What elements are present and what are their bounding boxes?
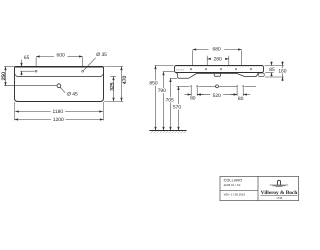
svg-text:1748: 1748 [276, 196, 283, 200]
rim fixing circles [190, 68, 192, 70]
basin deck inner edge line (plan) [15, 67, 103, 69]
svg-text:600: 600 [57, 53, 65, 59]
fixing hole extension right pair [236, 87, 238, 96]
dim 470 extension top [104, 66, 123, 68]
svg-text:325: 325 [110, 82, 116, 91]
drain leader dot [60, 87, 61, 88]
drain hole (elevation) [216, 85, 219, 88]
title block vertical divider [257, 176, 259, 200]
svg-text:COLLARO: COLLARO [224, 178, 243, 182]
dim 705 extension [170, 77, 177, 79]
svg-text:160: 160 [278, 68, 286, 74]
drain centre extension line [4, 85, 57, 87]
svg-text:80: 80 [190, 96, 196, 102]
dim 680 line right [224, 49, 242, 51]
gap 850 [149, 80, 158, 85]
svg-text:680: 680 [213, 47, 221, 53]
bowl underside line [197, 73, 238, 75]
dim 790 extension [163, 71, 174, 73]
svg-text:V00 / 17.06.2019: V00 / 17.06.2019 [224, 192, 246, 196]
dim 280 extension left [206, 56, 208, 65]
leader diameter 35 [84, 58, 96, 70]
svg-text:470: 470 [122, 76, 128, 85]
dim 1200 line left [15, 119, 52, 121]
title block horizontal divider [220, 190, 258, 192]
svg-text:280: 280 [214, 56, 222, 62]
dim 85 extension mid [265, 72, 273, 74]
dim 80 right stubs [230, 94, 237, 96]
svg-text:850: 850 [149, 81, 157, 87]
svg-text:80: 80 [238, 96, 244, 102]
bowl underside right pocket [237, 73, 258, 76]
svg-text:790: 790 [158, 88, 166, 94]
basin bowl inner outline (plan) [15, 74, 102, 76]
fixing hole right pair [236, 86, 237, 87]
dim 80 left stubs [184, 94, 191, 96]
svg-text:1180: 1180 [53, 109, 64, 115]
tap hole centre extension line [20, 70, 35, 72]
basin outer outline (plan) [15, 67, 104, 102]
dim 280 extension right [228, 56, 230, 65]
gap 570 [172, 104, 181, 109]
gap 160 [278, 68, 287, 73]
dim 680 extension left [192, 50, 194, 65]
svg-text:Ø 35: Ø 35 [96, 52, 107, 58]
dim 520 line left [197, 94, 210, 96]
dim 470 line [121, 67, 123, 102]
basin rim band (elevation) [175, 66, 264, 73]
fixing hole left pair [191, 86, 192, 87]
svg-text:65: 65 [24, 55, 30, 61]
dim 160 arrow top [282, 61, 284, 65]
dim 790 line [163, 72, 165, 131]
V&B icon base steps [270, 184, 288, 186]
dim 325 line [113, 77, 115, 102]
dim 600 extension right [82, 57, 84, 66]
dim 160 arrow bottom [282, 77, 284, 81]
drain outer circle [57, 84, 61, 88]
dim 1180 line left [15, 111, 50, 113]
dim 600 line [36, 56, 54, 58]
bottom extension right [103, 102, 105, 120]
dim 680 extension right [241, 50, 243, 65]
bowl underside left pocket [176, 73, 197, 79]
svg-text:85: 85 [269, 67, 275, 73]
dim 600 extension left [35, 57, 37, 66]
dim 85 upper arrow [271, 61, 273, 65]
svg-text:Ø 45: Ø 45 [67, 91, 78, 97]
logo underline [261, 194, 298, 196]
dim 705 line [170, 78, 172, 130]
svg-text:520: 520 [213, 93, 221, 99]
dim 570 line [178, 86, 180, 130]
dim 1180 line right [65, 111, 103, 113]
dim 280 stub left [207, 58, 211, 60]
svg-text:250: 250 [1, 72, 7, 81]
dim 65 upper arrow line [21, 60, 23, 67]
tap hole left (plan) [35, 70, 37, 72]
gap 705 [165, 97, 174, 102]
fixing hole row line segments [177, 85, 190, 87]
dim 65 lower arrow line [21, 71, 23, 75]
dim 520 line right [223, 94, 237, 96]
fixing hole extension left pair [190, 87, 192, 96]
dim 470 extension bottom [104, 100, 123, 102]
svg-text:705: 705 [166, 97, 174, 103]
dim 850 extension [155, 65, 174, 67]
dim 85 lower arrow [271, 73, 273, 77]
svg-text:570: 570 [173, 104, 181, 110]
dim 280 stub right [225, 58, 229, 60]
dim 160 line middle [282, 66, 284, 78]
dim 850 line [155, 66, 157, 131]
bottom extension left [14, 102, 16, 120]
dim 250 line [5, 67, 7, 86]
dim 1200 line right [66, 119, 104, 121]
svg-text:4A33 C1 / C4: 4A33 C1 / C4 [224, 183, 241, 187]
dim 250 extension top [4, 66, 14, 68]
title block outer border [220, 176, 299, 200]
svg-text:1200: 1200 [53, 117, 64, 123]
V&B arch icon [277, 180, 281, 185]
floor line [149, 130, 186, 132]
dim 325 extension top [110, 76, 116, 78]
rim stipple row [176, 65, 262, 67]
dim 160 extension top [265, 65, 284, 67]
dim 160 extension bottom [265, 76, 284, 78]
right foot pad [259, 73, 265, 76]
tap hole right (plan) [82, 70, 84, 72]
gap 790 [157, 88, 166, 93]
rim hidden dashes left [176, 69, 184, 71]
floor hatching [151, 131, 187, 133]
leader diameter 45 [61, 88, 66, 93]
drain boss (elevation) [214, 74, 220, 77]
dim 680 line left [193, 49, 209, 51]
